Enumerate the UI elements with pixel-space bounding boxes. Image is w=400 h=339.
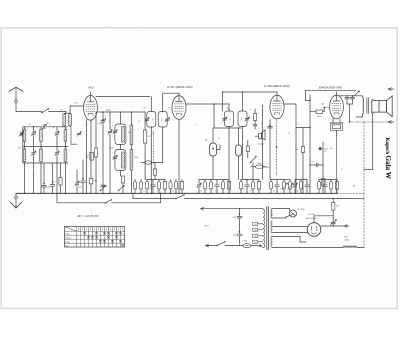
coil L1 antenna	[63, 114, 66, 126]
switch bus C	[105, 199, 112, 203]
bottom rail PSU	[240, 246, 344, 248]
wire AK1 cathode leads	[86, 120, 91, 195]
wire B+ rail	[306, 90, 357, 193]
wire E443H top	[337, 92, 363, 100]
svg-text:E 447 (RENS 1204): E 447 (RENS 1204)	[167, 85, 192, 89]
bus chassis	[16, 192, 337, 194]
wire	[251, 245, 263, 248]
E443H cathode net	[331, 119, 343, 137]
wire AK1 top cap	[90, 92, 92, 101]
wire v262	[262, 105, 264, 180]
field coil	[343, 237, 364, 248]
svg-text:50: 50	[148, 136, 150, 138]
svg-text:130: 130	[254, 230, 257, 232]
capacitor diamond 50uF	[318, 142, 328, 193]
label ZF	[77, 214, 100, 218]
svg-text:Läng: Läng	[65, 242, 69, 244]
capacitor 5000	[59, 163, 62, 193]
wire E446 anode right	[284, 104, 311, 128]
component row rail	[147, 179, 337, 181]
resistor 0,1M	[90, 145, 97, 193]
label RGN	[306, 213, 317, 220]
wire avc v303	[295, 128, 304, 194]
svg-text:AK1: AK1	[87, 86, 94, 90]
capacitor 0,1uF	[42, 163, 47, 193]
wire	[131, 170, 133, 193]
label 150	[0, 0, 1, 1]
trimmer C8	[108, 112, 112, 193]
svg-text:25000: 25000	[134, 157, 138, 159]
paper noise	[4, 30, 394, 305]
wire	[356, 114, 363, 118]
svg-text:1µF: 1µF	[222, 189, 225, 191]
tube E446	[270, 95, 284, 119]
rectifier heater wires	[273, 227, 308, 233]
svg-text:0,5: 0,5	[178, 189, 180, 191]
label 0,5M	[264, 167, 270, 169]
capacitor small	[101, 185, 105, 186]
wire IF1 sec bottom	[153, 127, 162, 180]
svg-text:2000: 2000	[171, 190, 174, 192]
svg-text:2µF: 2µF	[233, 235, 236, 237]
valve oval A leads	[212, 156, 214, 180]
svg-text:4µF: 4µF	[353, 186, 356, 188]
resistor 3	[253, 109, 257, 129]
rectifier anode feed	[314, 216, 333, 223]
tap labels	[254, 224, 257, 244]
trimmer band2 b	[55, 147, 59, 163]
component row	[134, 180, 339, 194]
svg-text:0,1: 0,1	[136, 189, 138, 191]
svg-text:500: 500	[60, 110, 63, 112]
resistor 1M box	[89, 178, 98, 193]
svg-text:0,1: 0,1	[87, 155, 89, 157]
B+ out wire	[321, 225, 349, 228]
switch osc s2	[118, 185, 124, 191]
wire block drops	[24, 163, 67, 194]
svg-text:0,1µF: 0,1µF	[78, 187, 82, 189]
resistor 5000 oval	[251, 163, 266, 169]
trimmer band1 b	[55, 127, 59, 147]
wire AK1 grid line	[97, 111, 145, 113]
wire	[70, 106, 84, 113]
wire	[49, 111, 67, 113]
rectifier tube	[307, 223, 321, 237]
svg-text:100: 100	[200, 190, 203, 192]
output transformer secondary	[372, 100, 373, 114]
transformer core	[267, 207, 269, 250]
svg-text:Feld: Feld	[344, 237, 347, 239]
svg-text:110: 110	[254, 224, 256, 226]
switch S1 antenna	[41, 108, 49, 113]
valve oval B	[236, 128, 242, 180]
label 20000 osc	[109, 147, 113, 149]
svg-text:4V 0,35A: 4V 0,35A	[298, 208, 306, 211]
wire	[213, 104, 215, 128]
trimmer ak1 grid	[77, 132, 81, 141]
capacitor 2uF a	[233, 209, 242, 219]
wire	[336, 136, 338, 193]
wire IF2 sec top	[222, 91, 277, 111]
bus C	[56, 193, 161, 203]
svg-text:50µF: 50µF	[325, 149, 329, 151]
label AK1	[87, 86, 94, 90]
wire left col	[22, 127, 24, 163]
label 1000	[18, 148, 22, 150]
resistor 0,1M b	[121, 171, 124, 194]
switch osc s1	[100, 185, 106, 191]
svg-text:140: 140	[144, 108, 147, 110]
svg-text:E443H (RES 964): E443H (RES 964)	[319, 85, 342, 89]
wire rail2	[23, 146, 68, 147]
svg-text:ZF = 128,5 kHz: ZF = 128,5 kHz	[77, 214, 100, 218]
svg-text:50: 50	[105, 116, 107, 118]
dashed chassis right	[363, 122, 365, 248]
label E447	[167, 85, 192, 89]
ground	[10, 193, 21, 208]
label 1000 IF2	[226, 108, 230, 110]
label 50000	[317, 116, 322, 118]
valve oval A	[210, 128, 220, 156]
tube E443H	[330, 95, 344, 119]
resistor 50	[143, 112, 146, 180]
label 25000	[134, 157, 138, 159]
resistor 663	[332, 198, 340, 222]
coil L4c	[64, 149, 67, 162]
label E443H	[319, 85, 342, 89]
svg-text:1µ: 1µ	[86, 125, 88, 127]
wire IF2 pri bottom	[228, 127, 242, 195]
table frame	[65, 227, 125, 248]
label 50	[148, 136, 150, 138]
svg-text:0,1µF: 0,1µF	[47, 186, 51, 188]
svg-text:1000: 1000	[226, 108, 230, 110]
svg-text:5000: 5000	[52, 182, 56, 184]
label LRMQ	[258, 143, 264, 145]
dashed to bus	[337, 192, 364, 194]
coil L3b	[40, 129, 43, 141]
label 4V	[298, 208, 306, 211]
svg-text:4µF: 4µF	[330, 148, 333, 150]
svg-text:30: 30	[47, 123, 49, 125]
wire	[119, 171, 121, 177]
svg-text:20000: 20000	[109, 147, 113, 149]
capacitor out arrow	[330, 220, 337, 227]
svg-text:20µµF: 20µµF	[98, 123, 102, 125]
misc labels	[29, 98, 359, 205]
svg-text:220: 220	[254, 242, 257, 244]
svg-text:0,3: 0,3	[250, 190, 252, 192]
coil L3a	[23, 129, 26, 141]
svg-text:0,2: 0,2	[207, 189, 209, 191]
wire	[362, 96, 364, 98]
wire	[295, 128, 296, 194]
capacitor osc pad	[100, 119, 105, 195]
resistor box 323	[321, 179, 329, 186]
svg-text:(1,5MΩ): (1,5MΩ)	[258, 143, 264, 145]
wire	[64, 126, 70, 127]
trimmer band1 a	[31, 127, 35, 147]
svg-text:2000: 2000	[74, 103, 78, 105]
label 0,1uF	[47, 186, 51, 188]
capacitor 0,1uF c	[78, 160, 85, 193]
svg-text:663: 663	[336, 206, 339, 208]
coil L4b	[40, 149, 43, 162]
svg-text:30: 30	[298, 124, 300, 126]
svg-text:3µ: 3µ	[29, 124, 31, 126]
switch bus B1	[175, 194, 184, 199]
output transformer core	[367, 98, 369, 114]
table X marks	[84, 232, 124, 246]
svg-text:0,5: 0,5	[297, 190, 299, 192]
wire antenna input	[16, 111, 42, 113]
wire speaker return	[364, 114, 373, 170]
svg-text:0,1: 0,1	[90, 145, 92, 147]
svg-text:(RGN 1064): (RGN 1064)	[306, 218, 317, 220]
transformer taps	[253, 222, 263, 243]
capacitor C tone2	[350, 95, 354, 104]
fuse 0,75A	[243, 240, 252, 248]
svg-text:X: X	[357, 121, 358, 123]
svg-text:0,1: 0,1	[230, 190, 232, 192]
svg-text:0,1: 0,1	[257, 189, 259, 191]
IF2 coil B	[238, 111, 250, 127]
capacitor 1uF series	[309, 162, 323, 167]
capacitor ant couple	[19, 131, 24, 136]
wire	[239, 236, 241, 245]
dial lamp	[273, 209, 297, 219]
wire IF1 sec top	[163, 93, 179, 111]
switch AF	[250, 156, 257, 180]
HV wires	[273, 237, 306, 243]
mains switch	[216, 241, 225, 246]
wire IF1 pri bottom	[151, 127, 153, 194]
svg-text:Kapsch Gala W: Kapsch Gala W	[384, 138, 392, 179]
wire	[25, 147, 66, 163]
svg-text:0,1: 0,1	[157, 190, 159, 192]
wire AK1 anode	[96, 96, 150, 98]
tube E447	[172, 96, 186, 120]
mains inlet arrows	[201, 207, 217, 247]
svg-text:220 V: 220 V	[204, 226, 209, 228]
svg-text:20: 20	[138, 121, 140, 123]
wire L2 bottom jog	[71, 127, 77, 144]
svg-text:4µF: 4µF	[243, 189, 246, 191]
trimmer inline rail1	[42, 123, 49, 130]
svg-text:300: 300	[143, 190, 146, 192]
transformer primary	[263, 209, 265, 248]
wire E446 cathode	[268, 120, 278, 180]
svg-text:15: 15	[50, 124, 52, 126]
svg-text:0,2: 0,2	[288, 133, 290, 135]
offpage arrow top	[388, 88, 394, 91]
row value labels	[136, 189, 299, 193]
coil L2 antenna	[69, 114, 72, 126]
wire	[25, 127, 66, 147]
label 5000	[52, 182, 56, 184]
svg-text:0,3: 0,3	[341, 169, 343, 171]
box 1uF	[246, 140, 249, 158]
wire E447 anode	[186, 103, 229, 105]
row trimmer arrows	[282, 183, 294, 190]
svg-text:1000: 1000	[18, 148, 22, 150]
wire	[228, 104, 230, 111]
svg-text:60: 60	[273, 190, 275, 192]
transformer sec heater1	[271, 209, 273, 219]
resistor small	[141, 161, 163, 164]
resistor 50000	[310, 108, 324, 114]
phone jack icon	[255, 130, 265, 140]
svg-text:4V: 4V	[325, 151, 327, 153]
wire	[347, 104, 353, 123]
svg-text:5000: 5000	[257, 163, 261, 165]
coil L4a	[23, 149, 26, 162]
svg-text:0,5MΩ: 0,5MΩ	[264, 167, 270, 169]
trimmer arrow	[355, 91, 360, 96]
wire E447 cathode	[178, 119, 180, 194]
coil osc right lower	[130, 145, 133, 171]
trimmer front	[75, 170, 79, 193]
IF1 coil A	[144, 112, 155, 128]
wire	[95, 112, 97, 148]
svg-text:40: 40	[261, 124, 263, 126]
capacitor grid E443H	[321, 103, 329, 108]
IF1 coil B	[158, 112, 170, 128]
trimmer band2 a	[31, 147, 35, 163]
label 1000 osc	[128, 132, 131, 134]
osc loop A	[113, 112, 126, 145]
svg-text:Grüna: Grüna	[65, 238, 71, 240]
svg-text:0,1: 0,1	[218, 138, 220, 140]
label 50uuF	[106, 109, 111, 111]
svg-text:50: 50	[215, 190, 217, 192]
svg-text:1µ: 1µ	[312, 162, 314, 164]
svg-text:50µµF: 50µµF	[106, 109, 111, 111]
mid rail	[214, 127, 241, 129]
IF2 coil A	[222, 111, 233, 127]
transformer sec heater2	[271, 221, 273, 233]
transformer sec HV	[271, 236, 273, 248]
capacitor 0,1uF b	[50, 163, 55, 193]
svg-text:140: 140	[168, 108, 171, 110]
svg-text:00: 00	[230, 119, 232, 121]
svg-text:0,75A: 0,75A	[243, 240, 248, 243]
bus B	[133, 193, 364, 198]
wire	[225, 245, 243, 247]
osc loop B	[113, 145, 126, 171]
output transformer primary	[363, 98, 364, 114]
svg-text:2µF: 2µF	[233, 217, 236, 219]
svg-text:150: 150	[254, 236, 257, 238]
label 140	[144, 108, 147, 110]
wire	[102, 112, 104, 119]
offpage arrow mid	[350, 121, 394, 124]
svg-text:E 446 (RENS 1264): E 446 (RENS 1264)	[264, 84, 289, 88]
title Kapsch Gala W	[384, 138, 392, 179]
svg-text:0,1: 0,1	[152, 133, 154, 135]
speaker	[373, 96, 392, 117]
label E446	[264, 84, 289, 88]
coil L3c	[64, 129, 67, 141]
capacitor C tone	[345, 95, 349, 104]
row labels	[0, 0, 1, 1]
table row labels	[65, 234, 71, 248]
dashed can IF1	[153, 131, 155, 164]
svg-text:5µF: 5µF	[321, 103, 324, 105]
coil osc right upper	[130, 112, 133, 145]
antenna	[9, 87, 23, 111]
wire	[64, 112, 70, 114]
tube AK1	[84, 95, 98, 120]
svg-text:2240Ω: 2240Ω	[344, 240, 350, 242]
label 220V	[204, 226, 209, 228]
wire rail1	[23, 126, 68, 127]
wire rail3	[23, 162, 68, 164]
resistor 0,1M mid	[86, 152, 93, 160]
svg-text:50000: 50000	[317, 116, 322, 118]
capacitor 2uF b	[233, 219, 242, 237]
wire	[150, 97, 152, 112]
mains top	[207, 208, 263, 209]
